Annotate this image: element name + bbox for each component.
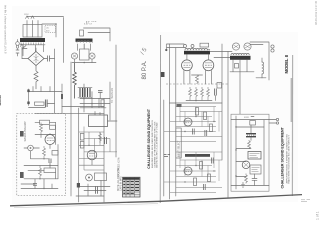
right rail 2 <box>169 44 171 199</box>
amp channel 1 wires <box>164 107 222 142</box>
bridge rectifier BR1 <box>28 52 44 66</box>
output transformer T3 winding bar <box>184 49 210 55</box>
line filter capacitor dashed box <box>45 26 56 33</box>
speaker transformer T4 bar <box>230 53 251 59</box>
right page model number <box>284 54 289 73</box>
svg-text:1 of 1: 1 of 1 <box>316 211 320 220</box>
driver transformer T5 <box>246 125 256 140</box>
channel 2 tube V8 <box>184 167 192 175</box>
preamp enclosure dashed box <box>17 114 66 196</box>
svg-text:80 P.A.: 80 P.A. <box>142 60 148 79</box>
BR1 leads <box>21 44 48 59</box>
bias bottom wire <box>170 100 223 103</box>
speaker box wires <box>231 117 279 186</box>
channel 2 capacitor Cc <box>203 184 205 190</box>
channel 1 resistor Rb <box>204 112 207 120</box>
bypass capacitor C6 <box>33 179 37 189</box>
power transformer T1 winding bar <box>20 38 45 45</box>
relay RL1 <box>248 152 261 160</box>
rail bus A <box>54 49 56 113</box>
speaker section box <box>231 114 269 191</box>
power tube V5 <box>182 54 193 84</box>
heater transformer T2 top components <box>80 22 111 42</box>
rail label text <box>111 88 114 103</box>
wire from T1 to bridge <box>35 51 37 52</box>
junction terminal <box>165 44 167 51</box>
coupling capacitor C5 <box>49 159 51 164</box>
wire heater bus <box>88 32 110 34</box>
lower stage resistor zigzag <box>39 166 42 179</box>
heater transformer T2 winding bar <box>76 39 93 43</box>
bias resistor Rb4 <box>207 87 210 100</box>
box capacitor marks <box>252 174 257 186</box>
bias resistor Rb2 <box>195 87 198 100</box>
handwritten mark /5 <box>140 47 149 56</box>
T4 tap resistor <box>235 64 239 69</box>
right rail 3 <box>175 48 177 196</box>
left page drawing number <box>142 60 148 79</box>
speaker box top rect <box>250 117 256 126</box>
right page edge fold line <box>291 55 293 196</box>
phono jack J2 <box>86 174 93 181</box>
filter choke L1 <box>256 58 266 78</box>
capacitor C2 <box>48 56 55 62</box>
channel 1 junction dots <box>184 116 214 132</box>
channel 1 resistor Ra <box>196 108 199 116</box>
svg-text:S2022A PREAMP: S2022A PREAMP <box>24 121 27 141</box>
filter network wire top <box>29 87 63 92</box>
socket box between tubes <box>80 44 90 60</box>
screen resistor rect <box>217 83 222 89</box>
box lower resistor zigzag <box>245 174 248 184</box>
wire top loop <box>27 17 64 38</box>
speaker box inner rail <box>263 120 265 185</box>
svg-text:SPKR: SPKR <box>244 117 250 119</box>
T2 secondary leads <box>78 44 91 51</box>
rail bus B <box>63 18 65 63</box>
scan caption bottom right corner <box>316 211 320 220</box>
preamp mid wires <box>24 148 50 166</box>
filter network wire bottom <box>29 104 55 108</box>
junction blob rail A <box>61 84 63 113</box>
right rail 1 <box>163 100 165 196</box>
wire long horizontal <box>35 112 104 114</box>
wire to bias cluster <box>62 106 104 108</box>
rail bus E <box>115 45 117 157</box>
bias resistor Rb3 <box>201 87 204 100</box>
right page title block <box>281 126 291 188</box>
driver resistor rect lower <box>80 142 84 149</box>
rail bus G <box>103 99 105 203</box>
power tube V6 <box>203 54 214 84</box>
svg-text:this file 2 sthsum ado castano: this file 2 sthsum ado castanod AO_jA.N.… <box>4 5 8 54</box>
T4 secondary leads <box>230 60 254 114</box>
bias cluster wires <box>80 84 110 112</box>
resistor R2 <box>35 102 45 105</box>
table side notes <box>117 157 122 191</box>
T4 output wires <box>250 42 269 80</box>
driver capacitor plates <box>105 137 107 144</box>
svg-text:115V: 115V <box>24 14 29 16</box>
screen wire <box>214 57 230 59</box>
T1 primary leads <box>23 45 44 56</box>
connector on fold line <box>161 72 165 77</box>
bias capacitor plates <box>215 89 217 101</box>
cathode resistor R5 <box>43 146 46 159</box>
svg-text:08-09-2012 14:17:35: 08-09-2012 14:17:35 <box>314 0 318 25</box>
page bottom edge heavy line <box>10 195 302 206</box>
resistor R6 below rectifier tube <box>73 63 77 99</box>
svg-text:CHALLENGER SOUND EQUIPMENT: CHALLENGER SOUND EQUIPMENT <box>281 126 285 188</box>
filter capacitor C3 <box>27 89 29 106</box>
driver tube V4 <box>87 150 97 165</box>
channel 1 resistor Rc <box>210 124 213 132</box>
left page title block <box>147 108 159 169</box>
scan caption top right corner <box>314 0 318 25</box>
svg-text:TO HEATERS: TO HEATERS <box>111 88 114 103</box>
channel 2 resistor Re <box>208 174 211 182</box>
svg-text:CAPS IN MFD: CAPS IN MFD <box>119 176 122 191</box>
small resistor rect in bias cluster <box>101 100 104 107</box>
connector blob on box edge upper <box>20 131 24 137</box>
jack block <box>250 165 261 174</box>
channel 1 tube V7 <box>184 118 192 126</box>
speaker transformer T4 windings <box>232 43 251 50</box>
mains plug P1 <box>16 40 20 49</box>
OT primary top wires <box>167 44 184 48</box>
resistor R1 <box>34 66 38 90</box>
rail bus C <box>70 62 72 196</box>
channel 2 resistor Rf <box>194 178 197 186</box>
bias resistor Rb1 <box>189 87 192 100</box>
output transformer T3 terminals <box>184 43 209 47</box>
svg-text:MODEL 8: MODEL 8 <box>284 54 289 73</box>
scan caption left margin <box>4 5 8 54</box>
plate resistor rect <box>52 151 58 156</box>
right rail 4 <box>221 44 223 160</box>
switch S1 <box>22 46 27 50</box>
lower stage resistor rect <box>44 168 56 173</box>
T5 secondary resistor zigzag <box>248 140 251 149</box>
lower mid wires <box>76 181 110 197</box>
svg-text:6.3V CT: 6.3V CT <box>84 24 93 26</box>
left edge text fragment <box>0 95 2 106</box>
preamp section label <box>24 121 27 141</box>
speaker SP1 <box>242 161 250 169</box>
channel 2 junction dots <box>184 165 214 183</box>
relay box K1 <box>89 112 118 127</box>
resistor R7 zigzag <box>40 123 43 135</box>
resistor R4 rect <box>50 125 56 129</box>
channel 2 capacitor Cd <box>211 158 213 164</box>
channel 2 resistor Rd <box>200 162 203 170</box>
ground symbol in box <box>241 182 245 187</box>
svg-text:DWG NO 80-5 REV C 6-12-49 SHEE: DWG NO 80-5 REV C 6-12-49 SHEET 1 OF 1 S… <box>155 122 158 168</box>
svg-text:RADIO WIRE TELEVISION INC. NEW: RADIO WIRE TELEVISION INC. NEW YORK N.Y. <box>288 134 291 183</box>
heater bar channel 2 <box>164 154 211 157</box>
wire below tubes <box>72 62 96 64</box>
preamp bottom wires <box>21 179 58 189</box>
svg-text:CHALLENGER SOUND EQUIPMENT: CHALLENGER SOUND EQUIPMENT <box>147 108 151 169</box>
parts table <box>123 177 141 197</box>
rectifier tube V2 <box>89 53 95 63</box>
grid resistor between tubes <box>192 75 203 84</box>
connector blob on box edge lower <box>20 172 24 178</box>
tiny note under line right <box>301 199 310 201</box>
selenium rectifier stack <box>78 87 92 98</box>
amp channel 2 wires <box>164 152 222 193</box>
speaker box rail <box>235 116 236 189</box>
grid wire preamp <box>35 122 56 144</box>
rail bus D <box>109 82 111 120</box>
power transformer T1 frame <box>23 14 42 37</box>
channel 1 capacitor Ca <box>192 129 194 135</box>
svg-text:VOLTAGES ±10%: VOLTAGES ±10% <box>118 157 121 176</box>
preamp tube V3 <box>45 134 55 149</box>
output coupling rect <box>95 173 107 181</box>
input jack J1 <box>28 145 40 151</box>
resistor R3 horizontal <box>35 120 56 124</box>
bias capacitor C7 <box>98 91 103 99</box>
wire OT to speaker transformer <box>210 51 232 53</box>
page fold line between pages <box>159 35 161 203</box>
chassis dashed line <box>166 83 228 85</box>
fuse F1 <box>16 48 19 56</box>
output terminals <box>271 45 274 52</box>
rectifier tube V1 <box>71 53 77 63</box>
driver resistor zigzag <box>99 132 102 143</box>
channel 1 capacitor Cb <box>205 130 207 136</box>
capacitor C4 <box>45 100 47 108</box>
driver resistor rect upper <box>80 134 84 141</box>
channel 1 top marks <box>177 104 182 107</box>
amp section label box <box>176 128 181 158</box>
svg-text:AO-5c: AO-5c <box>0 95 2 106</box>
rail bus F <box>78 108 80 202</box>
connector on rail F <box>77 183 80 188</box>
driver stage wires <box>79 127 117 171</box>
preamp lower wires <box>24 145 58 180</box>
right rail 5 <box>227 52 229 198</box>
